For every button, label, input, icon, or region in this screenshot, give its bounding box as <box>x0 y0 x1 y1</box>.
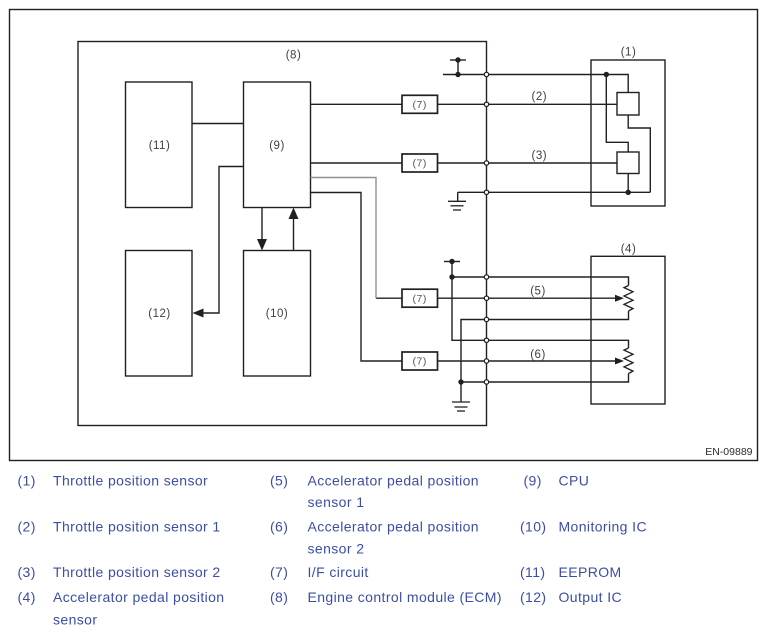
outer border frame <box>10 10 758 461</box>
junction dot supply top <box>455 72 460 77</box>
wire (3) pin to sensor element <box>487 162 618 164</box>
svg-text:sensor 2: sensor 2 <box>308 541 365 557</box>
wire (2) from CPU to I/F <box>311 103 403 105</box>
svg-text:Output IC: Output IC <box>559 589 623 605</box>
wiper arrowhead pot1 <box>615 295 624 302</box>
svg-text:sensor: sensor <box>53 612 97 628</box>
pot1 return wire <box>487 311 629 320</box>
svg-text:Engine control module (ECM): Engine control module (ECM) <box>308 589 502 605</box>
svg-text:(7): (7) <box>413 158 427 170</box>
junction dot sensor1 ground <box>626 190 631 195</box>
junction dot power top <box>455 57 460 62</box>
supply wire top to sensor <box>487 74 607 76</box>
svg-text:EN-09889: EN-09889 <box>705 446 752 458</box>
wire (9) down to (10) <box>261 208 263 241</box>
svg-text:Accelerator pedal position: Accelerator pedal position <box>308 472 480 488</box>
svg-text:(8): (8) <box>270 589 288 605</box>
svg-text:(7): (7) <box>413 356 427 368</box>
arrowhead (10) to (9) <box>289 208 299 220</box>
svg-text:(5): (5) <box>530 285 546 297</box>
supply wire pot1 <box>452 276 487 278</box>
svg-text:(6): (6) <box>270 519 288 535</box>
junction dot sensor1 supply <box>604 72 609 77</box>
CPU block (9) <box>244 82 311 208</box>
pot1 return to ground drop <box>461 320 487 383</box>
svg-text:(2): (2) <box>18 519 36 535</box>
svg-text:(4): (4) <box>18 589 36 605</box>
sensor ground wire top <box>458 191 487 193</box>
svg-text:(10): (10) <box>520 519 547 535</box>
svg-text:(11): (11) <box>520 564 545 580</box>
supply wire top <box>443 74 487 76</box>
hall element 1 <box>617 93 639 116</box>
svg-text:Throttle position sensor 2: Throttle position sensor 2 <box>53 564 221 580</box>
svg-text:Accelerator pedal position: Accelerator pedal position <box>53 589 225 605</box>
potentiometer 1 zigzag <box>624 286 633 312</box>
wire (3) from I/F to pin <box>438 162 487 164</box>
svg-text:CPU: CPU <box>559 472 590 488</box>
wire dot to element2 top <box>606 75 628 153</box>
connector pin pot1 return <box>484 317 488 321</box>
wire (6) pin to wiper arrow <box>487 360 617 362</box>
ECM block (8) <box>78 42 487 426</box>
junction dot ground bottom <box>458 379 463 384</box>
connector pin wire2 <box>484 102 488 106</box>
supply branch down <box>452 277 487 340</box>
svg-text:Throttle position sensor: Throttle position sensor <box>53 472 208 488</box>
supply wire pot2 to sensor <box>487 340 629 348</box>
power drop top <box>457 60 459 75</box>
svg-text:(1): (1) <box>621 47 637 59</box>
svg-text:(4): (4) <box>621 243 637 255</box>
svg-text:(7): (7) <box>413 293 427 305</box>
wire (9) to (12) <box>201 167 244 314</box>
wire (5) pin to wiper arrow <box>487 297 617 299</box>
ground bottom bar1 <box>452 401 470 403</box>
ground top bar1 <box>448 200 466 202</box>
wire dot to element1 top <box>606 75 628 93</box>
svg-text:sensor 1: sensor 1 <box>308 494 365 510</box>
ground top bar2 <box>451 205 464 207</box>
connector pin wire5 <box>484 296 488 300</box>
power drop bottom <box>451 262 453 278</box>
svg-text:(7): (7) <box>270 564 288 580</box>
svg-text:(9): (9) <box>524 472 542 488</box>
svg-text:Monitoring IC: Monitoring IC <box>559 519 647 535</box>
EEPROM block (11) <box>126 82 193 208</box>
connector pin wire6 <box>484 359 488 363</box>
svg-text:(2): (2) <box>532 91 548 103</box>
junction dot supply bottom <box>449 274 454 279</box>
pot2 return to ground <box>461 381 487 383</box>
svg-text:Throttle position sensor 1: Throttle position sensor 1 <box>53 519 221 535</box>
power bar top <box>450 59 466 61</box>
ground bottom bar2 <box>455 406 468 408</box>
gray wire (9) to I/F wire5 <box>311 178 377 299</box>
svg-text:(10): (10) <box>266 308 288 320</box>
ground top bar3 <box>453 209 461 211</box>
arrowhead (9) to (10) <box>257 239 267 251</box>
svg-text:(3): (3) <box>18 564 36 580</box>
hall element 2 <box>617 152 639 174</box>
Output IC block (12) <box>126 251 193 377</box>
ground stem top <box>457 192 459 201</box>
svg-text:(9): (9) <box>269 140 285 152</box>
I/F circuit box (7) wire5 <box>402 289 438 307</box>
power bar bottom <box>444 261 460 263</box>
connector pin pot1 supply <box>484 275 488 279</box>
I/F circuit box (7) wire2 <box>402 95 438 113</box>
I/F circuit box (7) wire3 <box>402 154 438 172</box>
svg-text:(11): (11) <box>149 140 171 152</box>
wiper arrowhead pot2 <box>615 358 624 365</box>
svg-text:(5): (5) <box>270 472 288 488</box>
wire (5) I/F to pin <box>438 297 487 299</box>
svg-text:Accelerator pedal position: Accelerator pedal position <box>308 519 480 535</box>
connector pin wire3 <box>484 161 488 165</box>
connector pin (2) supply <box>484 72 488 76</box>
svg-text:(1): (1) <box>18 472 36 488</box>
wire (2) pin to sensor element <box>487 103 618 105</box>
wire (10) up to (9) <box>293 219 295 251</box>
svg-text:(8): (8) <box>286 50 302 62</box>
wire (11)-(9) <box>192 123 244 125</box>
svg-text:(6): (6) <box>530 349 546 361</box>
connector pin pot2 supply <box>484 338 488 342</box>
wire (6) I/F to pin <box>438 360 487 362</box>
wire (3) from CPU to I/F <box>311 162 403 164</box>
svg-text:(12): (12) <box>148 308 170 320</box>
wire element2 bottom to junction <box>627 174 629 193</box>
junction dot power bottom <box>449 259 454 264</box>
ground stem bottom <box>460 382 462 402</box>
wire (5) from I/F corner <box>376 297 402 299</box>
svg-text:I/F circuit: I/F circuit <box>308 564 369 580</box>
throttle sensor box (1) <box>591 60 665 206</box>
pot2 return wire <box>487 374 629 383</box>
wire (2) from I/F to pin <box>438 103 487 105</box>
svg-text:(12): (12) <box>520 589 547 605</box>
wire element1 bottom to ground net <box>628 115 650 192</box>
potentiometer 2 zigzag <box>624 348 633 374</box>
svg-text:EEPROM: EEPROM <box>559 564 622 580</box>
connector pin pot2 return <box>484 380 488 384</box>
pedal sensor box (4) <box>591 256 665 404</box>
wire pin to sensor ground <box>487 191 651 193</box>
ground bottom bar3 <box>457 410 465 412</box>
supply wire pot1 to sensor <box>487 277 629 286</box>
connector pin sensor ground <box>484 190 488 194</box>
svg-text:(7): (7) <box>413 99 427 111</box>
wire (6) from CPU down to I/F <box>311 193 403 362</box>
I/F circuit box (7) wire6 <box>402 352 438 370</box>
Monitoring IC block (10) <box>244 251 311 377</box>
arrowhead into (12) <box>193 309 204 318</box>
svg-text:(3): (3) <box>532 150 548 162</box>
